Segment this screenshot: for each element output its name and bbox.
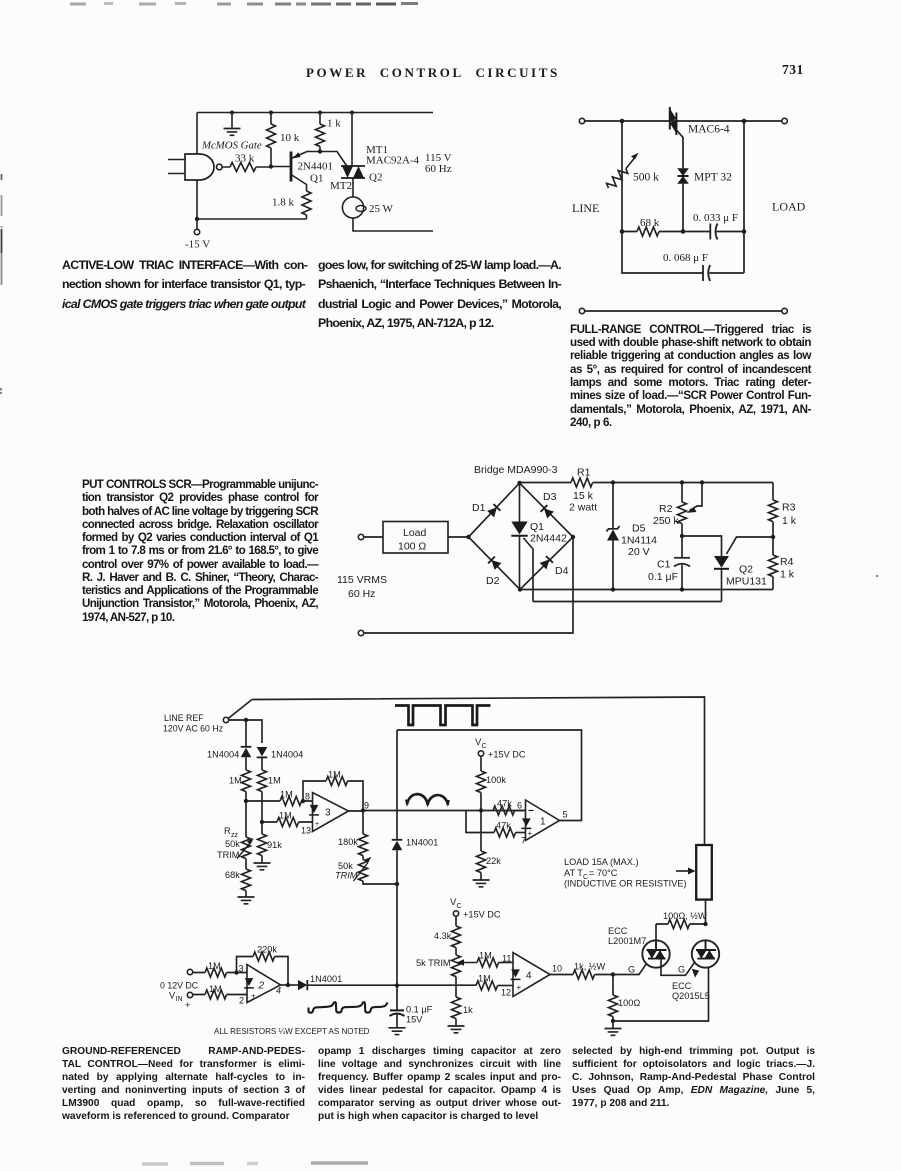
potentiometer R2 250 k [653,483,702,537]
wire step down [466,811,494,833]
svg-text:+: + [517,983,522,992]
node R2 top [680,480,684,484]
svg-text:McMOS Gate: McMOS Gate [201,140,262,152]
op-amp 2 LM3900 [239,964,289,1006]
SCR Q1 2N4442 [511,483,567,602]
svg-text:IN: IN [176,996,183,1003]
scan artifact left edge marks [0,174,3,394]
resistor 100 ohm 1/2W top [656,911,707,929]
svg-text:1M: 1M [280,790,293,800]
node left diode branch [244,718,248,722]
svg-text:L2001M7: L2001M7 [608,936,646,946]
resistor 1M to pin 12 [476,974,513,991]
svg-text:2N4401: 2N4401 [298,161,333,173]
wire triac1 MT1 to triac2 gate [661,959,695,976]
svg-text:1N4001: 1N4001 [406,838,438,848]
caption: GROUND-REFERENCED col 3 [572,1046,815,1111]
resistor R3 1 k [769,483,797,538]
node top rail at 10k [269,111,273,115]
load box 100 ohm [383,522,448,554]
terminal Vin bottom [187,992,192,997]
svg-text:Load: Load [403,527,427,539]
resistor 1M input top [193,961,247,977]
svg-text:15V: 15V [406,1015,423,1025]
svg-text:1N4114: 1N4114 [621,535,657,547]
svg-text:TRIM: TRIM [217,850,239,860]
svg-text:+15V DC: +15V DC [463,910,501,920]
svg-text:G: G [628,965,635,975]
svg-text:1M: 1M [229,776,242,786]
svg-text:100Ω, ½W: 100Ω, ½W [663,911,707,921]
resistor 22k [477,811,502,880]
svg-text:25 W: 25 W [369,203,394,215]
node op4 output [611,972,615,976]
svg-text:50k: 50k [338,861,353,871]
svg-text:C: C [482,743,487,750]
svg-text:100Ω: 100Ω [618,998,640,1008]
node R2 wiper top [700,480,704,484]
transistor Q1 2N4401 [291,152,333,192]
resistor 1k divider [452,997,474,1026]
node 50k trim bottom at diode column [395,882,399,886]
svg-text:4.3k: 4.3k [434,931,452,941]
svg-text:Q1: Q1 [310,173,323,185]
node mid center [681,229,686,234]
svg-text:68 k: 68 k [640,217,660,229]
wire op3 output line [349,810,526,813]
svg-text:20 V: 20 V [628,546,650,558]
scan artifact dashes top edge [70,2,418,6]
svg-text:LINE: LINE [572,201,599,215]
node right branch top [742,119,747,124]
wire bottom bus c3 [520,589,773,591]
wire bottom loop left [622,232,703,274]
wire bottom rail c1 [197,218,307,220]
resistor R4 1 k [769,537,795,590]
svg-text:Bridge MDA990-3: Bridge MDA990-3 [474,464,558,476]
node feedback at pin8 [301,799,305,803]
terminal -15 V [196,219,198,229]
svg-text:9: 9 [364,801,369,811]
resistor R1 15 k 2 watt [569,467,597,514]
svg-text:1 k: 1 k [327,118,341,130]
svg-text:1M: 1M [279,811,292,821]
wire AC return to source [364,537,573,633]
node R2 bottom / C1 top [680,534,684,538]
ground 1k [448,1026,465,1033]
svg-text:1M: 1M [479,951,492,961]
svg-text:zz: zz [231,832,239,839]
svg-text:12: 12 [501,988,511,998]
svg-text:D1: D1 [472,502,486,514]
ground output bus [612,1021,614,1028]
svg-text:1: 1 [540,817,546,828]
svg-text:180k: 180k [338,837,358,847]
resistor 68k [225,869,251,897]
svg-text:1.8 k: 1.8 k [272,197,295,209]
node mid left [620,229,625,234]
resistor 1k 1/2W output [550,962,613,980]
diode 1N4001 discharge [392,730,438,986]
svg-text:Q2015L5: Q2015L5 [672,991,710,1001]
svg-text:120V AC 60 Hz: 120V AC 60 Hz [163,724,223,734]
node Q1 collector [318,149,322,153]
op-amp 3 LM3900 [301,792,369,836]
ground 22k [473,880,490,887]
svg-text:C: C [457,903,462,910]
ground 68k [238,897,255,904]
svg-text:220k: 220k [257,945,277,955]
terminal Vc op4 [453,911,458,916]
diac MPT 32 [677,168,732,231]
svg-text:0.1 μF: 0.1 μF [406,1005,433,1015]
svg-text:11: 11 [502,954,511,964]
resistor 91k [258,822,283,863]
svg-text:2: 2 [258,981,265,992]
ground 0.1uF [389,1028,406,1035]
svg-text:5: 5 [563,810,568,820]
svg-text:R1: R1 [577,467,591,479]
potentiometer 5k TRIM [416,955,477,997]
potentiometer Rzz 50k TRIM [217,801,254,869]
wire collector to triac gate [320,152,347,166]
arrowhead triac2 gate [692,969,699,978]
node op3 output [361,808,365,812]
wire left vertical to NAND supply [196,113,198,220]
svg-text:10: 10 [552,964,562,974]
caption: ACTIVE-LOW TRIAC INTERFACE col 1 [62,256,305,314]
svg-text:D2: D2 [486,575,500,587]
svg-text:Q2: Q2 [739,564,753,576]
terminal line left [579,118,584,123]
load box 15A [564,845,712,900]
svg-text:1N4001: 1N4001 [310,974,342,984]
svg-text:33 k: 33 k [235,153,255,165]
svg-text:1 k: 1 k [780,569,795,581]
resistor 33 k [222,153,271,172]
resistor 1M to pin 11 [477,951,513,968]
wire top bus [252,697,705,845]
node D5 top [611,480,615,484]
resistor 1M to pin 13 [262,811,313,827]
caption: GROUND-REFERENCED col 1 [62,1046,305,1123]
waveform line-sync pulses [395,706,491,726]
capacitor 0.068 uF [663,252,744,281]
svg-text:13: 13 [301,826,311,836]
wire triac2 MT2 to load [705,900,707,924]
svg-text:LINE REF: LINE REF [164,713,204,723]
svg-text:100 Ω: 100 Ω [398,541,426,553]
node Rzz top / 1M to pin8 [244,799,248,803]
node bridge bottom [518,587,522,591]
diode D4 [540,556,553,569]
svg-text:4: 4 [276,986,281,996]
svg-text:250 k: 250 k [653,515,679,527]
svg-text:60 Hz: 60 Hz [348,588,375,600]
svg-text:0.1 μF: 0.1 μF [648,571,678,583]
svg-text:D4: D4 [555,565,569,577]
svg-text:MPU131: MPU131 [726,576,767,588]
wire gate line to PUT cathode [533,601,722,603]
wire left branch upper [245,720,247,746]
svg-text:1k: 1k [463,1005,473,1015]
svg-text:D3: D3 [543,491,557,503]
node 91k top / 1M to pin13 [260,820,264,824]
wire diagonal to top bus [228,700,252,719]
svg-text:50k: 50k [225,839,240,849]
PUT Q2 MPU131 [714,537,773,602]
diode D3 [541,505,554,518]
svg-text:1M: 1M [478,974,491,984]
svg-text:47k: 47k [497,799,512,809]
svg-text:MAC6-4: MAC6-4 [688,124,730,136]
diode D1 [487,504,500,517]
potentiometer 50k TRIM [335,856,397,884]
svg-text:ECC: ECC [672,981,692,991]
svg-text:ECC: ECC [608,926,628,936]
wire right branch c2 [743,121,745,273]
node load bottom [703,922,707,926]
terminal LINE REF [223,717,228,722]
svg-text:6: 6 [517,801,522,811]
svg-text:1 k: 1 k [782,515,797,527]
svg-text:1M: 1M [268,776,281,786]
node Q1 base [269,164,273,168]
wire gate triac 1 [613,959,650,975]
wire op1 output to diode top [397,730,582,821]
zener D5 1N4114 [607,483,658,590]
node cap top at op2 line [395,983,399,987]
svg-text:= 70°C: = 70°C [589,868,618,878]
wire lamp to bottom right rail [353,218,433,231]
svg-text:0. 068 μ F: 0. 068 μ F [663,252,708,264]
capacitor 0.1 uF 15V [390,986,433,1028]
resistor 220k feedback op2 [237,945,289,986]
node R3/R4 junction [771,535,775,539]
svg-text:5k TRIM: 5k TRIM [416,958,451,968]
svg-text:3: 3 [239,964,244,974]
node 100 ohm bottom [611,1019,615,1023]
svg-text:4: 4 [526,971,532,982]
page number 731 [782,62,804,78]
svg-text:+: + [315,821,319,828]
svg-text:AT T: AT T [564,868,583,878]
waveform full-wave humps [405,794,450,807]
resistor 180k [338,811,368,856]
resistor 10 k [267,113,300,167]
svg-text:ALL RESISTORS ¼W EXCEPT AS NOT: ALL RESISTORS ¼W EXCEPT AS NOTED [214,1027,370,1036]
node bridge top [517,481,521,485]
svg-text:R3: R3 [782,502,796,514]
wire triac1 MT2 up [655,924,657,940]
wire source to load box [364,536,383,538]
svg-text:2 watt: 2 watt [569,502,597,514]
resistor 100k [477,756,507,810]
svg-text:Q1: Q1 [530,521,544,533]
ground 91k [254,863,271,870]
svg-text:+: + [185,1000,190,1010]
svg-text:47k: 47k [496,821,511,831]
terminal 115 VRMS top [358,534,363,539]
svg-text:LOAD 15A (MAX.): LOAD 15A (MAX.) [564,857,639,867]
resistor 100 ohm [609,975,641,1022]
node bus at C1 [680,587,684,591]
svg-text:60 Hz: 60 Hz [425,163,452,175]
svg-text:R4: R4 [780,556,794,568]
header: POWER CONTROL CIRCUITS [306,65,560,81]
svg-text:+: + [251,992,256,1001]
stray dot artifact [876,575,878,577]
triac 2 ECC Q2015L5 [672,940,719,1001]
svg-text:68k: 68k [225,870,240,880]
triac MAC6-4 [670,107,730,168]
capacitor C1 0.1 uF [648,536,690,590]
terminal Vc op1 [478,751,483,756]
waveform ramp-pedestal [309,1002,388,1013]
wire terminal to diode branches [229,720,262,743]
resistor 1M right branch [258,770,281,822]
resistor 47k upper [493,799,526,816]
svg-text:91k: 91k [267,840,282,850]
svg-text:1k, ½W: 1k, ½W [574,962,605,972]
terminal 115 VRMS bottom [358,630,363,635]
svg-text:-15 V: -15 V [185,239,210,251]
svg-text:+15V DC: +15V DC [488,750,526,760]
svg-text:R: R [224,826,231,836]
caption: GROUND-REFERENCED col 2 [318,1046,561,1123]
svg-text:1M: 1M [209,984,222,994]
wire bottom bus to triac 2 [613,959,709,1021]
caption: ACTIVE-LOW TRIAC INTERFACE col 2 [318,256,561,333]
potentiometer 500 k [605,121,659,232]
svg-text:MAC92A-4: MAC92A-4 [366,155,420,167]
diode 1N4001 op2 output [288,974,476,990]
svg-text:+: + [528,829,533,838]
wire bottom isolated line [579,308,584,313]
op-amp 1 LM3900 [517,800,568,846]
svg-text:LOAD: LOAD [772,200,806,214]
resistor 1M feedback op3 [303,770,363,811]
resistor 4.3k [434,916,461,955]
resistor 1M input bottom [193,984,247,999]
svg-text:22k: 22k [486,856,501,866]
node top rail at triac branch [350,111,354,115]
resistor 47k lower [494,821,526,838]
caption: PUT CONTROLS SCR [82,478,318,624]
svg-text:8: 8 [305,792,310,802]
svg-text:500 k: 500 k [633,172,659,184]
diode 1N4004 left [207,747,251,770]
node 100k / 47k pickoff [479,808,483,812]
wire top rail c3 [520,482,774,484]
node left branch top [620,119,625,124]
node bus at D5 [611,587,615,591]
svg-text:G: G [678,965,685,975]
node -15V rail [195,217,199,221]
svg-text:1M: 1M [328,770,341,780]
svg-text:1N4004: 1N4004 [207,750,239,760]
svg-text:R2: R2 [659,503,673,515]
node mid right [742,229,747,234]
diode D2 [488,557,501,570]
lamp 25 W [342,197,393,218]
svg-text:D5: D5 [632,523,646,535]
svg-text:10 k: 10 k [280,132,300,144]
svg-text:3: 3 [325,808,331,819]
triac 1 ECC L2001M7 [608,926,670,968]
svg-text:7: 7 [521,836,526,846]
resistor 1M to pin 8 [246,790,313,806]
resistor 1.8 k [272,191,311,219]
wire bridge diamond [469,483,574,590]
svg-text:100k: 100k [486,775,506,785]
svg-text:(INDUCTIVE OR RESISTIVE): (INDUCTIVE OR RESISTIVE) [564,879,687,889]
NAND gate McMOS (U1) [168,140,262,181]
wire top rail c2 [585,120,782,122]
svg-text:115 VRMS: 115 VRMS [337,574,387,586]
svg-text:MPT 32: MPT 32 [694,172,732,184]
wire load box to bridge [448,536,469,538]
resistor 68 k [622,217,710,236]
terminal Vin top [187,969,192,974]
scan artifact dashes bottom edge [142,1163,368,1164]
svg-text:15 k: 15 k [573,490,594,502]
svg-text:1M: 1M [208,961,221,971]
resistor 1M left branch [229,770,251,801]
node top rail at ground tap [230,111,234,115]
capacitor 0.033 uF [693,212,744,240]
terminal line right [782,118,787,123]
wire base node to Q1 [271,166,290,168]
svg-text:MT2: MT2 [330,180,352,192]
triac Q2 MAC92A-4 [330,113,420,197]
wire PUT anode [682,536,722,556]
wire top rail c1 [197,112,433,114]
resistor 1 k [316,113,342,152]
svg-text:2N4442: 2N4442 [530,533,567,545]
svg-text:1N4004: 1N4004 [271,750,303,760]
svg-text:2: 2 [239,996,244,1006]
svg-text:TRIM: TRIM [335,871,358,881]
node top rail at 1k [318,111,322,115]
node pin3 feedback [234,970,238,974]
svg-text:0. 033 μ F: 0. 033 μ F [693,212,738,224]
op-amp 4 LM3900 [501,953,562,998]
svg-text:C1: C1 [657,559,671,571]
svg-text:Q2: Q2 [369,172,382,184]
node op2 output [286,983,290,987]
node bridge right [571,535,575,539]
svg-text:0 12V DC: 0 12V DC [160,981,199,991]
caption: FULL-RANGE CONTROL [570,323,811,430]
node bridge left [466,535,470,539]
diode 1N4004 right [257,747,303,770]
ground (top of circuit 1) [231,113,233,128]
